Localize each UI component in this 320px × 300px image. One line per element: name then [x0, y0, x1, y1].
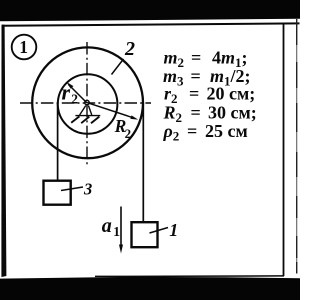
svg-text:3: 3 — [83, 180, 92, 199]
svg-text:a: a — [102, 215, 112, 237]
svg-text:2: 2 — [71, 92, 78, 107]
svg-text:2: 2 — [124, 38, 135, 60]
svg-text:2: 2 — [125, 126, 132, 141]
svg-text:1: 1 — [113, 224, 120, 239]
svg-text:1: 1 — [19, 37, 28, 57]
svg-text:1: 1 — [169, 220, 178, 240]
svg-text:r: r — [62, 80, 71, 105]
